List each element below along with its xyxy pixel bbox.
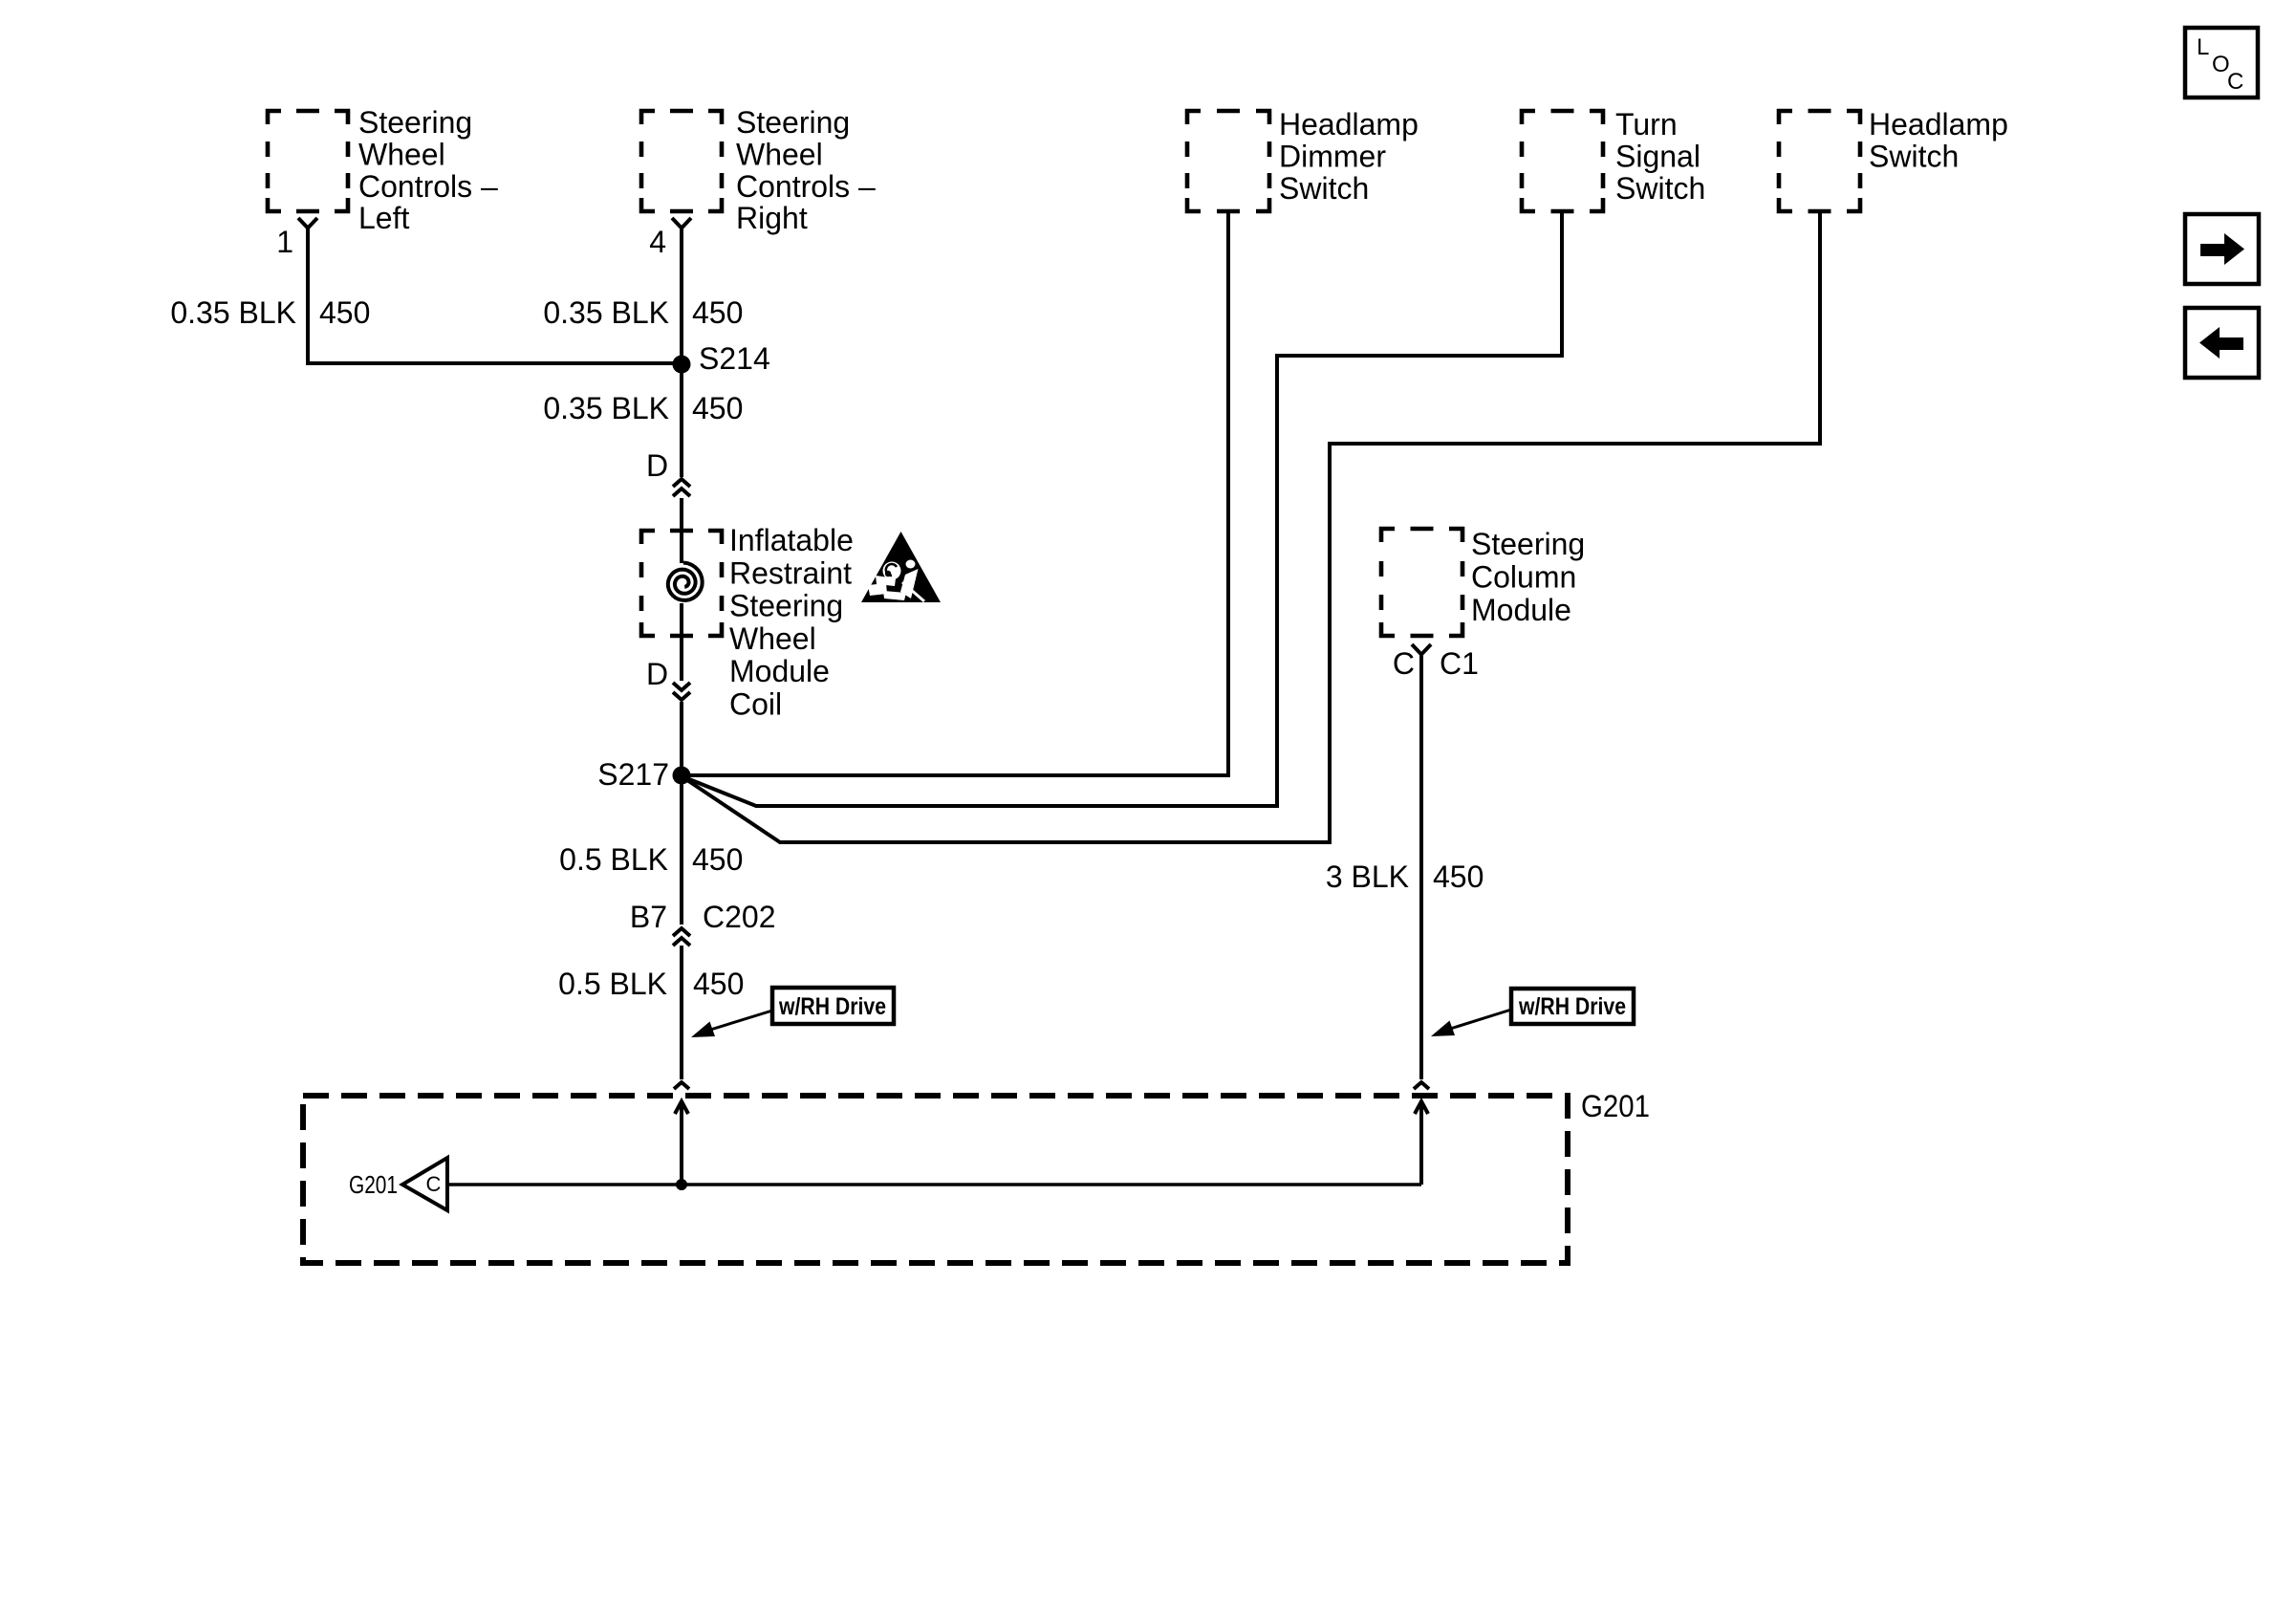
component box Steering Wheel Controls - Left (dashed): [268, 111, 348, 211]
callout box w/RH Drive (left): [772, 988, 894, 1024]
ground arrow up (left) inside G201: [675, 1101, 688, 1185]
svg-text:Wheel: Wheel: [358, 137, 445, 171]
svg-text:0.35 BLK: 0.35 BLK: [543, 295, 669, 330]
wire label 450 (pin 4 wire): [692, 295, 743, 330]
wire label 3 BLK: [1326, 859, 1409, 894]
wire 0.5 BLK 450 from S217 to connector C202: [680, 775, 683, 925]
svg-text:Column: Column: [1471, 559, 1576, 594]
svg-text:Wheel: Wheel: [736, 137, 823, 171]
svg-text:Module: Module: [1471, 593, 1571, 627]
label Headlamp Switch: [1869, 107, 2008, 174]
callout box w/RH Drive (right): [1511, 989, 1634, 1024]
wire from connector D into coil module: [680, 498, 683, 563]
svg-text:450: 450: [693, 967, 744, 1001]
wire 3 BLK 450 from C1 down to G201: [1419, 654, 1423, 1079]
splice label S217: [597, 757, 669, 792]
svg-text:G201: G201: [1581, 1089, 1650, 1123]
splice label S214: [699, 341, 770, 376]
in-line connector D (lower) double chevron: [673, 683, 690, 700]
wire label 450 (3 BLK wire): [1433, 859, 1484, 894]
component box Steering Wheel Controls - Right (dashed): [641, 111, 722, 211]
component box Turn Signal Switch (dashed): [1522, 111, 1603, 211]
clockspring coil spiral symbol: [668, 563, 703, 600]
svg-text:B7: B7: [630, 900, 667, 934]
svg-text:Steering: Steering: [1471, 527, 1585, 561]
svg-text:Switch: Switch: [1869, 140, 1959, 174]
svg-text:Steering: Steering: [729, 589, 843, 623]
wire 0.35 BLK 450 from pin 4 down to S214: [680, 228, 683, 364]
harness chevron at G201 boundary (right): [1414, 1082, 1429, 1089]
wire label 450 (above C202): [692, 842, 743, 877]
component box Headlamp Dimmer Switch (dashed): [1187, 111, 1269, 211]
svg-text:Dimmer: Dimmer: [1279, 140, 1386, 174]
ground bus junction dot: [676, 1179, 687, 1190]
svg-text:D: D: [646, 657, 668, 691]
svg-text:Headlamp: Headlamp: [1869, 107, 2008, 141]
svg-text:Steering: Steering: [736, 105, 850, 140]
wire label 0.5 BLK (below C202): [558, 967, 667, 1001]
previous page arrow box: [2185, 308, 2259, 378]
wire from S217 to Turn Signal Switch: [684, 213, 1562, 806]
ground label G201 (at triangle): [349, 1170, 398, 1199]
callout arrow w/RH Drive (left): [691, 1011, 772, 1037]
terminal Y connector pin 1 of SWC-Left: [298, 218, 317, 228]
svg-text:Wheel: Wheel: [729, 621, 816, 656]
connector pin label D (upper): [646, 448, 668, 483]
connector label C202: [703, 900, 776, 934]
in-line connector D (upper) double chevron: [673, 479, 690, 496]
svg-text:450: 450: [319, 295, 370, 330]
wire label 0.35 BLK (pin 4 wire): [543, 295, 669, 330]
svg-text:Left: Left: [358, 201, 409, 235]
svg-text:0.5 BLK: 0.5 BLK: [558, 967, 667, 1001]
label Steering Wheel Controls - Right: [736, 105, 876, 235]
svg-text:C1: C1: [1440, 646, 1479, 681]
svg-text:w/RH Drive: w/RH Drive: [778, 993, 886, 1020]
svg-text:C: C: [426, 1172, 442, 1196]
svg-text:Steering: Steering: [358, 105, 472, 140]
svg-text:Controls –: Controls –: [736, 169, 876, 204]
svg-text:w/RH Drive: w/RH Drive: [1518, 993, 1626, 1020]
svg-text:450: 450: [1433, 859, 1484, 894]
svg-text:C: C: [1393, 646, 1415, 681]
svg-text:1: 1: [276, 225, 293, 259]
component box Headlamp Switch (dashed): [1779, 111, 1860, 211]
svg-text:450: 450: [692, 391, 743, 425]
ground box label G201: [1581, 1089, 1650, 1123]
svg-text:Inflatable: Inflatable: [729, 523, 854, 557]
component box Steering Column Module (dashed): [1381, 529, 1462, 636]
svg-text:Headlamp: Headlamp: [1279, 107, 1419, 141]
connector pin label D (lower): [646, 657, 668, 691]
svg-text:450: 450: [692, 842, 743, 877]
svg-text:0.35 BLK: 0.35 BLK: [170, 295, 296, 330]
ground arrow up (right) inside G201: [1415, 1101, 1428, 1185]
svg-text:S214: S214: [699, 341, 770, 376]
svg-text:4: 4: [649, 225, 666, 259]
ground bus wire inside G201: [447, 1183, 1421, 1186]
svg-text:0.5 BLK: 0.5 BLK: [559, 842, 668, 877]
svg-text:Controls –: Controls –: [358, 169, 498, 204]
label Steering Wheel Controls - Left: [358, 105, 498, 235]
harness chevron at G201 boundary (left): [674, 1082, 689, 1089]
label Steering Column Module: [1471, 527, 1585, 627]
wire label 0.35 BLK (left): [170, 295, 296, 330]
label Headlamp Dimmer Switch: [1279, 107, 1419, 206]
label Turn Signal Switch: [1615, 107, 1705, 206]
next page arrow box: [2185, 214, 2259, 284]
in-line connector C202 double chevron: [673, 928, 690, 946]
wire label 0.5 BLK (above C202): [559, 842, 668, 877]
svg-text:D: D: [646, 448, 668, 483]
svg-text:3 BLK: 3 BLK: [1326, 859, 1409, 894]
svg-text:0.35 BLK: 0.35 BLK: [543, 391, 669, 425]
svg-text:Signal: Signal: [1615, 140, 1700, 174]
wire label 450 (below C202): [693, 967, 744, 1001]
pin number 4: [649, 225, 666, 259]
svg-text:Turn: Turn: [1615, 107, 1678, 141]
SIR airbag warning triangle icon: [861, 532, 941, 602]
wire label 0.35 BLK (below S214): [543, 391, 669, 425]
svg-text:L: L: [2197, 34, 2209, 60]
wire from coil spiral down to connector D lower: [680, 603, 683, 681]
wire 0.35 BLK 450 from pin 1 down and right to S214: [308, 228, 675, 363]
svg-text:C202: C202: [703, 900, 776, 934]
connector pin label B7: [630, 900, 667, 934]
ground terminal triangle with C: [402, 1158, 447, 1210]
LOC reference box: [2185, 28, 2258, 98]
svg-text:450: 450: [692, 295, 743, 330]
wire 0.35 BLK 450 from S214 down to connector D: [680, 364, 683, 477]
terminal Y connector C1 of Steering Column Module: [1412, 644, 1431, 655]
connector pin label C: [1393, 646, 1415, 681]
svg-text:S217: S217: [597, 757, 669, 792]
label Inflatable Restraint Steering Wheel Module Coil: [729, 523, 854, 722]
svg-text:Module: Module: [729, 654, 830, 688]
wire from connector D lower to S217: [680, 702, 683, 775]
wire label 450 (left): [319, 295, 370, 330]
wire label 450 (below S214): [692, 391, 743, 425]
svg-text:Restraint: Restraint: [729, 555, 852, 590]
component box Inflatable Restraint Steering Wheel Module Coil (dashed): [641, 531, 722, 636]
svg-text:Switch: Switch: [1615, 171, 1705, 206]
pin number 1: [276, 225, 293, 259]
callout arrow w/RH Drive (right): [1431, 1010, 1511, 1036]
svg-text:Switch: Switch: [1279, 171, 1369, 206]
terminal Y connector pin 4 of SWC-Right: [672, 218, 691, 228]
splice S217 junction dot: [673, 767, 691, 785]
svg-text:C: C: [2227, 69, 2243, 95]
wire from S217 to Headlamp Dimmer Switch: [682, 213, 1228, 775]
svg-text:Coil: Coil: [729, 687, 782, 722]
svg-text:G201: G201: [349, 1170, 398, 1199]
wire from S217 to Headlamp Switch: [684, 213, 1820, 842]
splice S214 junction dot: [673, 356, 691, 374]
connector label C1: [1440, 646, 1479, 681]
svg-text:Right: Right: [736, 201, 808, 235]
ground box G201 (dashed): [303, 1096, 1568, 1263]
wire 0.5 BLK 450 from C202 to G201: [680, 946, 683, 1079]
